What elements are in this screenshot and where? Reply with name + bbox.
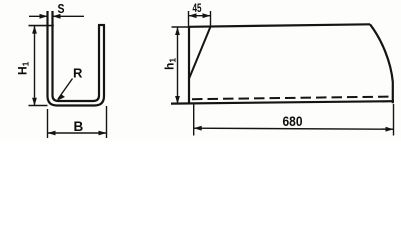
S left arrow	[40, 14, 48, 19]
side view interior 45-degree cut line	[189, 27, 210, 78]
dimension S line right segment	[53, 15, 85, 17]
H1 bottom extension line	[29, 105, 48, 107]
channel cross-section outer outline	[48, 11, 105, 106]
680 extension line left	[193, 105, 195, 136]
B extension line right	[106, 106, 108, 138]
side view right edge (curved cut)	[370, 24, 393, 103]
680 dimension line	[194, 128, 394, 129]
B right arrow	[99, 131, 107, 136]
B extension line left	[47, 109, 49, 138]
B dimension line	[48, 132, 107, 134]
S right arrow	[53, 14, 61, 19]
R leader line	[58, 79, 73, 100]
svg-text:H1: H1	[16, 61, 31, 75]
side view bottom edge	[171, 101, 394, 103]
h1 top arrow	[175, 27, 180, 35]
svg-text:S: S	[58, 1, 65, 16]
B left arrow	[48, 131, 56, 136]
dimension S line left segment	[29, 15, 48, 17]
H1 top extension line / left wall top cap	[29, 25, 54, 27]
right wall top cap	[98, 24, 105, 26]
680 extension line right	[393, 104, 395, 136]
R leader arrow	[57, 94, 66, 101]
svg-text:45: 45	[193, 1, 202, 15]
side view left edge	[188, 27, 190, 104]
svg-text:680: 680	[283, 114, 303, 129]
svg-text:h1: h1	[163, 58, 178, 70]
svg-text:B: B	[74, 119, 84, 134]
hidden dashed line	[192, 97, 390, 100]
channel cross-section inner outline	[53, 11, 100, 101]
45 extension lines	[189, 11, 211, 27]
45 right arrow	[203, 13, 211, 18]
h1 bottom arrow	[175, 96, 180, 104]
h1 top extension line	[172, 26, 190, 28]
680 left arrow	[194, 126, 202, 131]
side view top edge	[189, 24, 370, 27]
h1 dimension line	[177, 27, 179, 104]
45 dimension line	[189, 15, 211, 17]
H1 dimension line	[34, 26, 36, 106]
45 left arrow	[189, 13, 197, 18]
svg-text:R: R	[73, 66, 83, 81]
H1 top arrow	[32, 26, 37, 34]
H1 bottom arrow	[32, 98, 37, 106]
680 right arrow	[386, 127, 394, 132]
